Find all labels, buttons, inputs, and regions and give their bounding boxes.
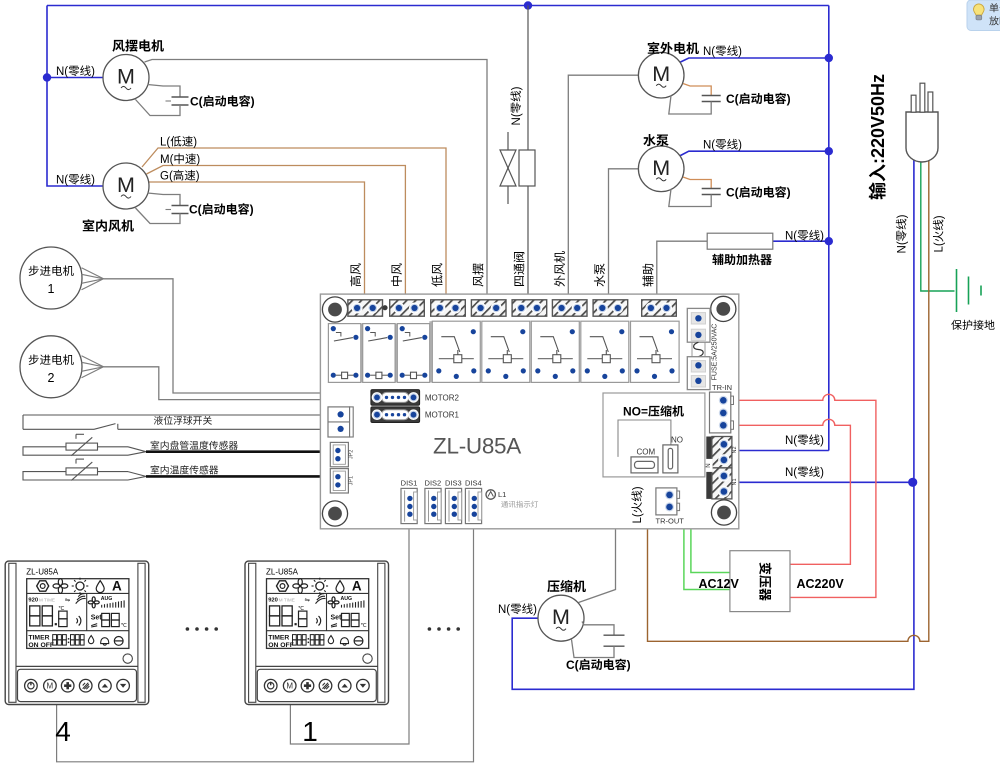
svg-text:2: 2 — [48, 371, 55, 385]
stepper motor 1 步进电机1 — [20, 247, 82, 309]
display panel unit 4 — [5, 561, 149, 704]
svg-text:JP1: JP1 — [349, 476, 355, 485]
fuse holder top — [687, 308, 710, 342]
wire: N branch to water pump — [680, 151, 829, 156]
svg-text:C(启动电容): C(启动电容) — [726, 92, 791, 106]
wire: fan low speed L to relay CH3 (tan) — [142, 148, 446, 300]
motor: swing fan motor 风摆电机 — [103, 55, 149, 101]
relay K1 (small) — [328, 324, 360, 383]
connector JP1 — [330, 469, 348, 493]
connector DIS2 — [425, 488, 441, 523]
svg-text:室内风机: 室内风机 — [82, 219, 134, 234]
svg-text:N: N — [706, 463, 712, 467]
svg-text:MOTOR2: MOTOR2 — [425, 393, 460, 402]
svg-text:M: M — [652, 62, 670, 86]
svg-text:N2: N2 — [732, 446, 738, 453]
svg-text:DIS1: DIS1 — [401, 479, 418, 488]
node: N junction at swing branch — [43, 73, 51, 81]
relay K8 (large) — [631, 321, 680, 382]
svg-text:N(零线): N(零线) — [498, 603, 537, 616]
wire: plug N line down and around to compressor (blue) — [512, 160, 914, 689]
svg-text:C(启动电容): C(启动电容) — [726, 186, 791, 200]
svg-text:N1: N1 — [732, 478, 738, 485]
svg-text:N(零线): N(零线) — [703, 45, 742, 58]
svg-text:风摆电机: 风摆电机 — [112, 39, 164, 54]
sensor: 室内盘管温度传感器 (coil temp) — [23, 434, 328, 455]
terminal block CH7 水泵 — [593, 300, 628, 316]
mounting hole bottom-left — [322, 501, 347, 526]
svg-text:高风: 高风 — [349, 263, 363, 287]
svg-text:L1: L1 — [498, 490, 506, 499]
svg-text:L(低速): L(低速) — [160, 136, 197, 149]
svg-text:DIS4: DIS4 — [465, 479, 482, 488]
svg-text:ZL-U85A: ZL-U85A — [433, 434, 521, 459]
svg-text:水泵: 水泵 — [643, 133, 669, 148]
connector MOTOR2 — [371, 390, 420, 406]
svg-text:室内温度传感器: 室内温度传感器 — [150, 465, 219, 477]
svg-text:G(高速): G(高速) — [160, 170, 200, 183]
node: N junction at four-way valve tap — [524, 1, 532, 9]
ellipsis dots right of panel 1 — [428, 627, 460, 631]
svg-text:C(启动电容): C(启动电容) — [189, 203, 254, 217]
mounting hole top-left — [322, 297, 347, 322]
svg-text:MOTOR1: MOTOR1 — [425, 411, 460, 420]
wire: N branch to outdoor motor — [680, 58, 829, 63]
connector TR-OUT — [656, 488, 680, 515]
node: junction outdoor N — [825, 54, 833, 62]
svg-text:1: 1 — [48, 282, 55, 296]
sensor: 室内温度传感器 (room temp) — [23, 459, 328, 480]
fuse element — [692, 342, 705, 357]
svg-text:JP2: JP2 — [349, 450, 355, 459]
svg-text:TR-OUT: TR-OUT — [656, 517, 685, 526]
svg-text:C(启动电容): C(启动电容) — [190, 95, 255, 109]
svg-text:单击: 单击 — [989, 3, 1000, 15]
capacitor: outdoor motor start cap — [669, 84, 721, 115]
transformer 变压器 — [730, 551, 790, 612]
motor: water pump 水泵 — [638, 146, 684, 192]
heater: aux heater 辅助加热器 — [707, 233, 773, 249]
svg-text:NO: NO — [671, 436, 683, 445]
svg-text:N(零线): N(零线) — [785, 434, 824, 447]
svg-text:DIS3: DIS3 — [445, 479, 462, 488]
svg-text:NO=压缩机: NO=压缩机 — [623, 405, 684, 419]
motor: outdoor motor 室外电机 — [638, 52, 684, 98]
wire: NO output down to compressor — [579, 477, 616, 603]
connector DIS4 — [465, 488, 481, 523]
connector DIS3 — [445, 488, 461, 523]
relay K6 (large) — [531, 321, 579, 382]
svg-text:变压器: 变压器 — [758, 562, 773, 601]
wire: fan mid speed M to relay CH2 (tan) — [147, 166, 406, 301]
relay K3 (small) — [397, 324, 429, 383]
svg-text:步进电机: 步进电机 — [28, 265, 74, 278]
wire: stepper1 to MOTOR2 connector — [104, 279, 371, 393]
relay K5 (large) — [482, 321, 530, 382]
svg-text:辅助: 辅助 — [641, 263, 655, 287]
node: junction N1/plug-N — [908, 478, 917, 487]
svg-text:M: M — [652, 156, 670, 180]
NO=压缩机 relay output box — [603, 393, 705, 477]
svg-text:M: M — [117, 173, 135, 197]
wire: right N bus vertical (blue) — [828, 6, 830, 451]
svg-text:N(零线): N(零线) — [56, 65, 95, 78]
control board ZL-U85A outline — [320, 294, 738, 529]
node: junction heater N — [825, 237, 833, 245]
connector TR-IN — [710, 392, 734, 433]
connector NO — [663, 445, 678, 473]
wire: left N drop to motors (blue) — [47, 6, 103, 187]
wire: swing motor return to relay CH4 (gray) — [145, 60, 488, 301]
wire: N2 terminal to right bus (blue) — [732, 450, 829, 452]
wire: TR-OUT pin1 to transformer 12V (green) — [677, 495, 730, 573]
wire: plug L line down to COM (brown, hops N) — [648, 160, 929, 641]
wire: TR-OUT pin2 to transformer 12V (green) — [677, 507, 730, 590]
mounting hole top-right — [711, 296, 736, 321]
terminal block CH6 外风机 — [552, 300, 587, 316]
svg-text:液位浮球开关: 液位浮球开关 — [154, 415, 213, 427]
wire: TR-IN pin1 to transformer 220V (red, hops N bus) — [725, 394, 876, 597]
power plug — [906, 83, 938, 162]
ellipsis dots between panels — [186, 627, 218, 631]
svg-text:COM: COM — [637, 448, 656, 457]
capacitor: compressor start cap — [572, 622, 625, 658]
svg-text:水泵: 水泵 — [593, 263, 607, 287]
svg-text:N(零线): N(零线) — [896, 214, 909, 253]
fuse holder bottom — [687, 357, 710, 390]
terminal N2/N1 strip — [706, 437, 732, 499]
svg-text:辅助加热器: 辅助加热器 — [712, 253, 772, 267]
svg-text:N(零线): N(零线) — [703, 139, 742, 152]
wire: outdoor motor to relay CH6 (gray) — [568, 75, 638, 300]
svg-text:中风: 中风 — [390, 263, 404, 287]
terminal block CH8 辅助 — [642, 300, 677, 316]
node: junction pump N — [825, 147, 833, 155]
terminal block CH3 低风 — [431, 300, 466, 316]
svg-text:室内盘管温度传感器: 室内盘管温度传感器 — [150, 440, 238, 452]
wire: water pump to relay CH7 (gray) — [609, 169, 639, 300]
wire: N branch to swing motor — [47, 77, 103, 79]
svg-text:DIS2: DIS2 — [425, 479, 442, 488]
wire: DIS4 to display panel 4 — [57, 524, 474, 762]
connector DIS1 — [401, 488, 417, 523]
svg-text:四通阀: 四通阀 — [513, 251, 527, 287]
ground symbol 保护接地 — [957, 269, 982, 312]
wire: fan high speed G to relay CH1 (tan) — [149, 182, 365, 300]
pcb mark dot — [382, 305, 387, 310]
wire: TR-IN pin3 to transformer 220V (red, hops N bus) — [725, 419, 850, 564]
wire: DIS1 to display panel 1 — [290, 524, 409, 744]
capacitor: indoor fan start cap — [136, 193, 189, 224]
capacitor: swing motor start cap — [136, 85, 189, 116]
svg-text:AC12V: AC12V — [699, 577, 740, 591]
wire: N1 terminal to plug-N vertical (blue) — [732, 481, 914, 483]
terminal block CH2 中风 — [390, 300, 425, 316]
relay K2 (small) — [363, 324, 395, 383]
svg-text:AC220V: AC220V — [797, 577, 845, 591]
display panel unit 1 — [245, 561, 389, 704]
wire fan-out: stepper1 — [82, 268, 104, 290]
svg-text:放映: 放映 — [989, 16, 1000, 28]
wire: N branch to aux heater — [773, 240, 829, 242]
four-way valve 四通阀 coil — [500, 132, 535, 204]
svg-text:N(零线): N(零线) — [510, 86, 523, 125]
stepper motor 2 步进电机2 — [20, 336, 82, 398]
svg-text:L(火线): L(火线) — [933, 215, 946, 252]
motor: indoor fan motor 室内风机 — [103, 163, 149, 209]
terminal block CH1 高风 — [348, 300, 383, 316]
svg-text:L(火线): L(火线) — [631, 486, 644, 523]
svg-text:TR-IN: TR-IN — [712, 383, 732, 392]
connector MOTOR1 — [371, 407, 420, 423]
svg-text:N(零线): N(零线) — [785, 230, 824, 243]
connector: float switch input — [328, 407, 353, 437]
connector COM — [631, 457, 658, 473]
svg-text:外风机: 外风机 — [553, 251, 567, 287]
svg-text:压缩机: 压缩机 — [547, 579, 586, 594]
wire: plug earth to protective ground (green) — [921, 160, 955, 291]
wire fan-out: stepper2 — [82, 356, 104, 378]
wire: aux heater to relay CH8 (gray) — [657, 241, 707, 300]
relay K4 (large) — [432, 321, 480, 382]
svg-text:M: M — [552, 605, 570, 629]
svg-text:保护接地: 保护接地 — [951, 319, 995, 332]
svg-text:通讯指示灯: 通讯指示灯 — [501, 500, 539, 509]
svg-text:低风: 低风 — [431, 263, 445, 287]
terminal block CH4 风摆 — [471, 300, 506, 316]
capacitor: pump start cap — [669, 177, 721, 207]
motor: compressor 压缩机 — [538, 595, 584, 641]
svg-text:N(零线): N(零线) — [56, 173, 95, 186]
svg-text:FUSE:5A/250VAC: FUSE:5A/250VAC — [712, 324, 719, 381]
svg-text:步进电机: 步进电机 — [28, 354, 74, 367]
connector JP2 — [330, 442, 348, 466]
svg-text:风摆: 风摆 — [472, 263, 486, 287]
svg-text:输入:220V50Hz: 输入:220V50Hz — [868, 74, 888, 200]
mounting hole bottom-right — [711, 500, 736, 525]
svg-text:M(中速): M(中速) — [160, 153, 200, 166]
wire: four-way valve N line (gray) — [527, 6, 529, 301]
svg-text:N(零线): N(零线) — [785, 466, 824, 479]
LED L1 comm indicator — [486, 490, 495, 499]
wire: top N bus (blue) — [47, 5, 829, 7]
svg-text:4: 4 — [55, 716, 71, 747]
svg-text:M: M — [117, 65, 135, 89]
svg-text:1: 1 — [302, 716, 318, 747]
terminal block CH5 四通阀 — [512, 300, 547, 316]
float switch 液位浮球开关 — [23, 415, 329, 429]
wire: stepper2 to MOTOR1 connector — [104, 367, 371, 416]
tooltip popup with bulb icon — [967, 0, 1000, 31]
svg-text:C(启动电容): C(启动电容) — [566, 658, 631, 672]
relay K7 (large) — [581, 321, 629, 382]
svg-text:室外电机: 室外电机 — [647, 41, 699, 56]
